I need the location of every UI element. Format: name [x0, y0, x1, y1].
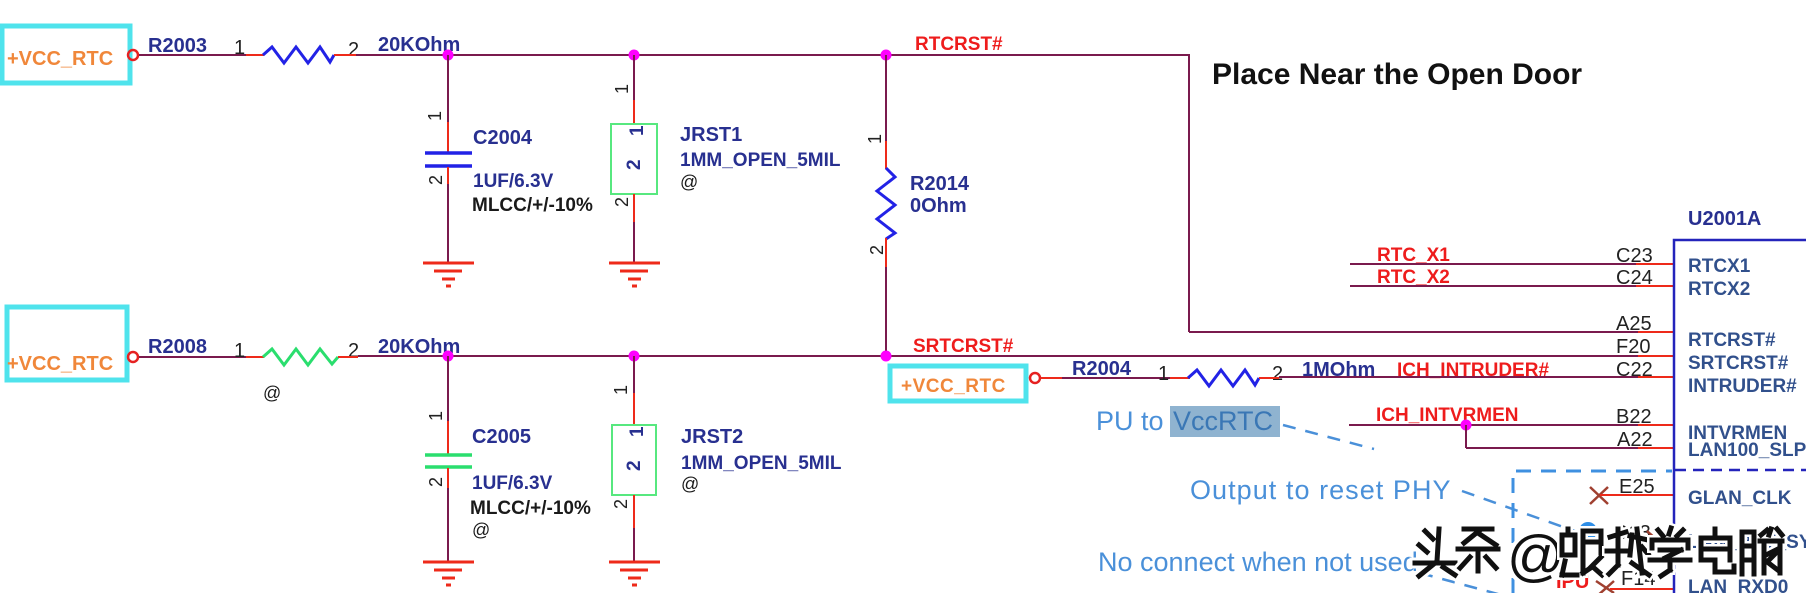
JRST2 value @ [681, 474, 699, 494]
svg-text:1UF/6.3V: 1UF/6.3V [472, 473, 553, 494]
wire RTC_X1 to pin C23 [1350, 263, 1674, 265]
svg-text:LAN100_SLP: LAN100_SLP [1688, 440, 1806, 461]
ground under JRST1 [609, 263, 660, 286]
junction node at JRST1 tap [629, 50, 640, 61]
wire junction to jumper JRST2 pin1 [633, 356, 635, 425]
svg-text:C23: C23 [1616, 245, 1653, 267]
pin number G13 [1613, 522, 1651, 544]
svg-text:1: 1 [611, 385, 631, 395]
svg-text:JRST1: JRST1 [680, 124, 742, 146]
pin name INTRUDER# [1688, 376, 1797, 397]
junction node at C2004 tap [443, 50, 454, 61]
C2005 value @ [472, 520, 490, 540]
power symbol +VCC_RTC middle-left [7, 307, 127, 380]
svg-text:C22: C22 [1616, 359, 1653, 381]
svg-text:A25: A25 [1616, 313, 1652, 335]
JRST1 pin 2 number (rotated) [612, 197, 632, 207]
pin name RTCX2 [1688, 279, 1750, 300]
comment text No connect when not used [1098, 547, 1418, 577]
pin number F14 [1621, 568, 1655, 590]
svg-text:1: 1 [234, 340, 245, 362]
wire R2008 pin2 to SRTCRST# net and F20 [338, 356, 1674, 357]
wire RTCRST# vertical drop to A25 [1188, 55, 1190, 332]
U2001A internal section dashed divider [1675, 469, 1806, 472]
JRST1 value @ [680, 172, 698, 192]
net label RTC_X2 [1377, 267, 1450, 288]
svg-text:1UF/6.3V: 1UF/6.3V [473, 171, 554, 192]
svg-text:2: 2 [348, 340, 359, 362]
svg-text:R2004: R2004 [1072, 358, 1132, 380]
junction node at R2014 tap [881, 50, 892, 61]
jumper JRST1 body [611, 124, 657, 194]
svg-text:@: @ [681, 474, 699, 494]
svg-text:@: @ [680, 172, 698, 192]
wire junction to resistor R2014 pin1 [885, 55, 887, 169]
svg-text:+VCC_RTC: +VCC_RTC [7, 48, 113, 70]
C2005 value 1UF/6.3V [472, 473, 553, 494]
C2004 value MLCC/+/-10% [472, 195, 593, 216]
svg-text:C2004: C2004 [473, 127, 533, 149]
svg-text:B22: B22 [1616, 406, 1652, 428]
R2014 pin 1 number (rotated) [865, 134, 885, 144]
wire RTC_X2 to pin C24 [1350, 285, 1674, 287]
resistor R2008 body [263, 349, 338, 365]
wire port2 to R2008 pin1 [139, 356, 264, 358]
dashed leader from reset PHY to G13 [1462, 491, 1580, 533]
svg-text:1: 1 [627, 125, 648, 136]
JRST2 ref label [681, 426, 743, 448]
ground under C2005 [423, 562, 474, 585]
R2004 ref label [1072, 358, 1132, 380]
JRST2 pin 1 number (rotated) [611, 385, 631, 395]
capacitor C2004 plates [425, 153, 472, 166]
R2008 value 20KOhm [378, 336, 460, 358]
svg-text:2: 2 [624, 159, 645, 170]
junction node at JRST2 tap [629, 351, 640, 362]
wire port3 to R2004 pin1 [1041, 377, 1190, 379]
watermark 头条 @跟我学电脑 [1415, 524, 1782, 588]
R2003 ref label [148, 35, 207, 57]
comment text Output to reset PHY [1190, 475, 1452, 505]
wire JRST1 pin2 to ground [633, 194, 635, 262]
power symbol +VCC_RTC top-left [2, 26, 130, 83]
svg-text:No connect when not used: No connect when not used [1098, 547, 1418, 577]
dashed leader from No connect note [1420, 573, 1520, 593]
svg-text:GLAN_CLK: GLAN_CLK [1688, 488, 1792, 509]
pin name SRTCRST# [1688, 353, 1789, 374]
svg-text:C24: C24 [1616, 267, 1653, 289]
wire junction to jumper JRST1 pin1 [633, 55, 635, 124]
junction node at C2005 tap [443, 351, 454, 362]
no-connect X on pin G13 [1647, 531, 1667, 549]
pin number C24 [1616, 267, 1653, 289]
svg-text:SRTCRST#: SRTCRST# [1688, 353, 1789, 374]
svg-text:VccRTC: VccRTC [1173, 406, 1273, 436]
dashed highlight box around NC pins [1513, 471, 1672, 593]
svg-text:MLCC/+/-10%: MLCC/+/-10% [472, 195, 593, 216]
JRST2 pin 2 number (rotated) [611, 499, 631, 509]
svg-text:2: 2 [612, 197, 632, 207]
R2003 value 20KOhm [378, 34, 460, 56]
svg-text:A22: A22 [1617, 429, 1653, 451]
pin number E25 [1619, 476, 1655, 498]
wire stub pin F14 [1610, 588, 1674, 590]
svg-text:R2003: R2003 [148, 35, 207, 57]
wire R2003 pin2 to RTCRST# net [334, 54, 1190, 56]
svg-text:@: @ [263, 383, 281, 403]
svg-text:PU to: PU to [1096, 406, 1164, 436]
ground under JRST2 [609, 562, 660, 585]
svg-text:MLCC/+/-10%: MLCC/+/-10% [470, 498, 591, 519]
pin number B22 [1616, 406, 1652, 428]
no-connect X on pin E25 [1590, 487, 1608, 504]
wire INTVRMEN junction down to A22 net [1465, 425, 1467, 448]
svg-text:RTC_X1: RTC_X1 [1377, 245, 1450, 266]
R2004 value 1MOhm [1302, 359, 1375, 381]
net label ICH_INTVRMEN [1376, 405, 1519, 426]
pin name RTCX1 [1688, 256, 1751, 277]
wire R2014 pin2 down to SRTCRST# net [885, 238, 887, 356]
wire stub pin E25 [1600, 494, 1674, 496]
svg-text:2: 2 [624, 460, 645, 471]
open pin node of right +VCC_RTC port [1030, 373, 1040, 383]
svg-text:JRST2: JRST2 [681, 426, 743, 448]
svg-text:1: 1 [426, 411, 446, 421]
wire port1 to R2003 pin1 [139, 54, 264, 56]
ground under C2004 [423, 263, 474, 286]
JRST1 value 1MM_OPEN_5MIL [680, 150, 841, 171]
R2008 value @ [263, 383, 281, 403]
svg-text:RTCX2: RTCX2 [1688, 279, 1750, 300]
svg-text:1MM_OPEN_5MIL: 1MM_OPEN_5MIL [681, 453, 842, 474]
svg-text:RTC_X2: RTC_X2 [1377, 267, 1450, 288]
wire RTCRST# into pin A25 [1189, 331, 1674, 333]
C2004 ref label [473, 127, 533, 149]
pin name GLAN_RST_SY [1688, 532, 1806, 553]
JRST2 value 1MM_OPEN_5MIL [681, 453, 842, 474]
svg-text:+VCC_RTC: +VCC_RTC [7, 353, 113, 375]
jumper JRST2 body [612, 425, 656, 495]
svg-text:RTCRST#: RTCRST# [915, 34, 1003, 55]
svg-text:RTCRST#: RTCRST# [1688, 330, 1776, 351]
pin name LAN100_SLP [1688, 440, 1806, 461]
resistor R2004 body [1188, 370, 1259, 386]
R2008 pin 1 number [234, 340, 245, 362]
note text Place Near the Open Door [1212, 58, 1582, 91]
net label RTCRST# [915, 34, 1003, 55]
R2008 pin 2 number [348, 340, 359, 362]
wire junction to capacitor C2004 pin1 [447, 55, 449, 152]
svg-text:1: 1 [612, 84, 632, 94]
R2004 pin 1 number [1158, 363, 1169, 385]
blue avatar dot behind watermark [1579, 522, 1597, 540]
wire ICH_INTVRMEN to pin B22 [1349, 424, 1674, 426]
open pin node of middle +VCC_RTC port [128, 352, 138, 362]
pin number A25 [1616, 313, 1652, 335]
pin number C23 [1616, 245, 1653, 267]
comment text PU to VccRTC [1096, 406, 1280, 437]
svg-text:RTCX1: RTCX1 [1688, 256, 1751, 277]
svg-text:ICH_INTVRMEN: ICH_INTVRMEN [1376, 405, 1519, 426]
svg-text:1: 1 [425, 111, 445, 121]
svg-text:R2008: R2008 [148, 336, 207, 358]
svg-text:F20: F20 [1616, 336, 1650, 358]
C2005 value MLCC/+/-10% [470, 498, 591, 519]
svg-text:SRTCRST#: SRTCRST# [913, 336, 1014, 357]
wire C2004 pin2 to ground [447, 167, 449, 262]
R2003 pin 1 number [234, 37, 245, 59]
net label SRTCRST# [913, 336, 1014, 357]
wire stub pin G13 [1656, 539, 1674, 541]
power symbol +VCC_RTC right (R2004 pull-up) [890, 366, 1026, 401]
svg-text:2: 2 [867, 245, 887, 255]
R2014 pin 2 number (rotated) [867, 245, 887, 255]
svg-text:Place Near the Open Door: Place Near the Open Door [1212, 58, 1582, 91]
pin name RTCRST# [1688, 330, 1776, 351]
C2005 pin 1 number (rotated) [426, 411, 446, 421]
junction node on INTVRMEN net [1461, 420, 1472, 431]
wire C2005 pin2 to ground [447, 468, 449, 561]
svg-text:Output to reset PHY: Output to reset PHY [1190, 475, 1452, 505]
svg-text:+VCC_RTC: +VCC_RTC [901, 376, 1006, 397]
R2014 ref label [910, 173, 970, 195]
resistor R2003 body [263, 47, 334, 63]
C2004 value 1UF/6.3V [473, 171, 554, 192]
C2005 pin 2 number (rotated) [426, 477, 446, 487]
svg-text:2: 2 [426, 477, 446, 487]
svg-text:2: 2 [611, 499, 631, 509]
R2003 pin 2 number [348, 39, 359, 61]
R2014 value 0Ohm [910, 195, 967, 217]
junction node at R2014 bottom tap [881, 351, 892, 362]
IPU marker [1556, 571, 1589, 593]
net label RTC_X1 [1377, 245, 1450, 266]
JRST1 ref label [680, 124, 742, 146]
svg-text:1MM_OPEN_5MIL: 1MM_OPEN_5MIL [680, 150, 841, 171]
svg-text:C2005: C2005 [472, 426, 531, 448]
svg-text:2: 2 [348, 39, 359, 61]
no-connect X on pin F14 [1596, 581, 1614, 593]
svg-text:2: 2 [1272, 363, 1283, 385]
svg-text:1: 1 [865, 134, 885, 144]
svg-text:0Ohm: 0Ohm [910, 195, 967, 217]
svg-text:1: 1 [627, 426, 648, 437]
op IC U2001A body outline [1674, 240, 1806, 593]
svg-text:LAN_RXD0: LAN_RXD0 [1688, 577, 1788, 593]
R2004 pin 2 number [1272, 363, 1283, 385]
dashed leader from VccRTC to INTVRMEN [1283, 425, 1374, 449]
svg-text:1: 1 [1158, 363, 1169, 385]
wire to pin A22 [1466, 447, 1674, 449]
JRST1 pin 1 number (rotated) [612, 84, 632, 94]
svg-text:@: @ [472, 520, 490, 540]
svg-text:2: 2 [426, 175, 446, 185]
resistor R2014 body (vertical) [877, 168, 895, 239]
pin number F20 [1616, 336, 1650, 358]
wire R2004 pin2 to pin C22 [1259, 377, 1674, 378]
wire junction to capacitor C2005 pin1 [447, 356, 449, 454]
svg-text:U2001A: U2001A [1688, 208, 1761, 230]
R2008 ref label [148, 336, 207, 358]
C2004 pin 2 number (rotated) [426, 175, 446, 185]
U2001A ref label [1688, 208, 1761, 230]
wire JRST2 pin2 to ground [633, 495, 635, 561]
pin number A22 [1617, 429, 1653, 451]
svg-text:R2014: R2014 [910, 173, 970, 195]
svg-text:INTRUDER#: INTRUDER# [1688, 376, 1797, 397]
pin name INTVRMEN [1688, 423, 1787, 444]
svg-text:1: 1 [234, 37, 245, 59]
pin number C22 [1616, 359, 1653, 381]
pin name GLAN_CLK [1688, 488, 1792, 509]
capacitor C2005 plates [425, 455, 472, 467]
pin name LAN_RXD0 [1688, 577, 1788, 593]
C2005 ref label [472, 426, 531, 448]
C2004 pin 1 number (rotated) [425, 111, 445, 121]
net label ICH_INTRUDER# [1397, 360, 1549, 381]
open pin node of top +VCC_RTC port [128, 50, 138, 60]
